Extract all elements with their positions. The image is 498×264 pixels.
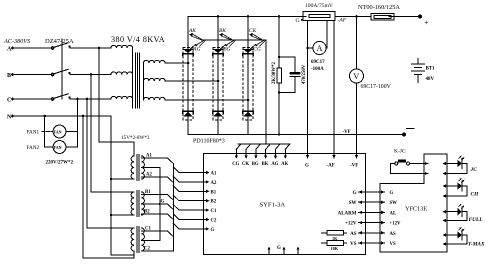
wire VS link xyxy=(350,241,396,247)
resistor R-AS 1K xyxy=(322,231,347,241)
wire K-JC lower xyxy=(390,164,428,176)
wire TA tap A1 xyxy=(142,154,174,164)
flag CG xyxy=(253,40,264,53)
svg-text:AL: AL xyxy=(390,211,397,216)
node RC bottom xyxy=(278,91,280,93)
svg-text:VS: VS xyxy=(390,242,396,247)
wire DC+ rail xyxy=(188,16,306,18)
svg-text:69C17: 69C17 xyxy=(311,60,325,65)
transformer TB secondary xyxy=(142,192,145,215)
svg-text:2K/30W*2: 2K/30W*2 xyxy=(272,62,277,84)
wire RC bottom xyxy=(279,92,295,94)
wire phase C right xyxy=(70,98,111,100)
wire phase A left xyxy=(13,47,52,49)
svg-text:A: A xyxy=(317,44,323,53)
diode A xyxy=(183,111,193,116)
wire module C mid xyxy=(247,55,249,111)
svg-text:CG: CG xyxy=(253,47,261,53)
wire TC centre tap xyxy=(142,240,160,242)
wire module A mid xyxy=(187,55,189,111)
wire T-MAIN secondary common xyxy=(143,63,145,100)
node RC top xyxy=(278,56,280,58)
thyristor B xyxy=(213,44,226,55)
svg-text:PD110F80*3: PD110F80*3 xyxy=(193,139,225,145)
node N drop 2 xyxy=(82,115,85,118)
svg-text:FULL: FULL xyxy=(469,217,484,223)
wire harness bundle left xyxy=(172,164,174,252)
T-MAIN primary winding A xyxy=(111,45,133,48)
wire rail shunt to fuse xyxy=(335,16,370,18)
wire G link xyxy=(353,190,394,196)
capacitor C-snubber 470/250V xyxy=(279,57,307,93)
svg-text:G: G xyxy=(353,191,357,196)
wire pin exit B2 xyxy=(173,195,209,202)
T-MAIN primary winding B xyxy=(111,72,133,75)
wire module C anode xyxy=(247,17,249,50)
controller U1 SYF1-3A box xyxy=(203,153,365,254)
svg-text:BT1: BT1 xyxy=(426,67,436,72)
wire gate pin AG xyxy=(271,144,280,167)
wire RC to bus xyxy=(278,93,280,135)
LED FULL xyxy=(443,204,484,223)
diode B xyxy=(213,111,223,116)
LED T-MAX xyxy=(443,227,485,247)
svg-text:VS: VS xyxy=(350,242,357,247)
svg-text:N: N xyxy=(7,115,12,121)
svg-text:-AF: -AF xyxy=(327,164,335,169)
svg-text:10K: 10K xyxy=(331,246,339,251)
svg-text:48V: 48V xyxy=(426,77,435,82)
pin labels A1-G left xyxy=(211,172,217,233)
breaker pole C xyxy=(51,94,71,100)
svg-text:380 V/4 8KVA: 380 V/4 8KVA xyxy=(111,35,165,44)
T-MAIN core xyxy=(136,53,140,108)
node A drop xyxy=(98,47,101,50)
wire N drop bus xyxy=(110,116,112,255)
transformer TC core xyxy=(137,227,139,253)
wire A drop to T1 primary xyxy=(99,48,134,156)
svg-text:G: G xyxy=(305,164,309,169)
svg-text:-100A: -100A xyxy=(311,67,324,72)
flag AG xyxy=(192,40,205,53)
svg-text:470/250V: 470/250V xyxy=(302,64,307,84)
terminal B xyxy=(7,73,14,79)
svg-text:A1: A1 xyxy=(211,172,217,177)
wire gate pin CG xyxy=(232,144,241,167)
svg-text:G: G xyxy=(161,200,165,205)
node B drop xyxy=(90,73,93,76)
wire TA tap A2 xyxy=(142,173,174,183)
svg-text:220V/27W*2: 220V/27W*2 xyxy=(46,161,74,166)
wire -AF sense xyxy=(333,21,335,159)
module C dashed outline xyxy=(243,48,253,121)
transformer TB primary xyxy=(131,192,134,215)
svg-text:BG: BG xyxy=(223,47,230,53)
svg-text:CK: CK xyxy=(249,28,257,34)
wire T3 bottom stub xyxy=(133,251,135,258)
terminal N xyxy=(7,115,14,121)
svg-text:T-MAX: T-MAX xyxy=(468,241,485,247)
node rail C xyxy=(247,15,250,18)
svg-text:1K: 1K xyxy=(332,236,338,241)
wire C drop to T3 primary xyxy=(87,99,134,228)
wire gate harness bus xyxy=(238,143,290,145)
wire ALARM link xyxy=(338,211,397,217)
svg-text:G: G xyxy=(211,228,215,233)
transformer TA core xyxy=(137,155,139,181)
svg-text:V: V xyxy=(353,72,359,81)
wire N drop 2 to T3 xyxy=(83,116,134,258)
node ammeter left xyxy=(306,47,308,49)
node N-T2 xyxy=(110,214,112,216)
svg-text:G: G xyxy=(390,191,394,196)
svg-text:+12V: +12V xyxy=(390,222,402,227)
wire gate harness drop xyxy=(265,40,267,144)
wire gate pin AK xyxy=(281,144,290,167)
T-MAIN primary winding C xyxy=(111,96,133,99)
wire TC tap C1 xyxy=(142,227,174,237)
wire pin exit G xyxy=(173,223,209,230)
pin G bottom row xyxy=(267,246,270,254)
wire pin exit A1 xyxy=(173,167,209,174)
wire SW link xyxy=(349,201,397,207)
terminal + output xyxy=(418,15,429,27)
wire shunt left sense xyxy=(307,21,309,159)
wire ammeter left stub xyxy=(308,47,314,49)
wire secondary a to module A xyxy=(165,62,188,64)
node rail B xyxy=(217,15,220,18)
svg-text:FAN: FAN xyxy=(54,145,62,150)
node rail RC xyxy=(278,15,281,18)
svg-text:K-JC: K-JC xyxy=(394,149,406,155)
wire rail fuse to + xyxy=(389,16,420,18)
wire pin exit B1 xyxy=(173,186,209,193)
flag BG xyxy=(223,40,235,53)
flag CK xyxy=(249,28,262,40)
wire AS link xyxy=(350,231,396,237)
wire TB centre tap to G xyxy=(142,200,174,210)
wire gate harness horizontal xyxy=(202,39,266,41)
svg-text:AS: AS xyxy=(350,232,357,237)
voltmeter PV xyxy=(350,69,392,90)
svg-text:FAN2: FAN2 xyxy=(27,145,40,151)
wire pin exit C2 xyxy=(173,214,209,221)
svg-text:AK: AK xyxy=(281,162,288,167)
wire ammeter right xyxy=(325,21,328,49)
diode C xyxy=(243,111,253,116)
svg-text:CK: CK xyxy=(242,162,249,167)
svg-text:DZ47-25A: DZ47-25A xyxy=(45,38,74,45)
wire module B anode xyxy=(217,17,219,50)
wire module A anode xyxy=(187,17,189,50)
wire phase B right xyxy=(70,74,111,76)
svg-text:A2: A2 xyxy=(211,181,217,186)
svg-text:15V*2-8W*3: 15V*2-8W*3 xyxy=(121,135,150,141)
wire phase B left xyxy=(13,74,52,76)
wire fan right drop xyxy=(77,99,79,147)
wire phase C left xyxy=(13,98,52,100)
svg-text:CG: CG xyxy=(232,162,239,167)
wire N to T2 primary bottom xyxy=(111,214,134,216)
wire diode B to bus xyxy=(217,116,219,134)
svg-text:AS: AS xyxy=(390,232,396,237)
node fan right on C xyxy=(76,98,79,101)
pin -VF top xyxy=(350,155,358,168)
svg-text:BG: BG xyxy=(252,162,259,167)
pin G top xyxy=(305,155,309,168)
fuse FU NT00-160/125A xyxy=(358,4,400,20)
wire B drop to T2 primary xyxy=(91,75,134,193)
wire pin exit A2 xyxy=(173,176,209,183)
svg-text:-VF: -VF xyxy=(343,130,351,135)
LED CH xyxy=(443,178,480,198)
terminal C xyxy=(7,98,14,104)
wire gate pin BK xyxy=(262,144,271,167)
terminal - output xyxy=(402,129,414,137)
wire diode A to bus xyxy=(187,116,189,134)
T-MAIN secondary winding a xyxy=(144,60,166,63)
wire secondary c to module C xyxy=(165,99,248,101)
svg-text:G: G xyxy=(296,18,300,24)
node G tap xyxy=(159,203,161,205)
flag BK xyxy=(219,28,232,40)
svg-text:C1: C1 xyxy=(211,209,217,214)
resistor R-snubber 2K/30W xyxy=(272,17,281,93)
svg-text:YFC13E: YFC13E xyxy=(405,206,427,213)
svg-text:SYF1-3A: SYF1-3A xyxy=(260,202,286,209)
wire TB tap B1 xyxy=(142,190,174,200)
transformer TC primary xyxy=(131,228,134,251)
node module C input xyxy=(247,99,250,102)
wire gate pin CK xyxy=(242,144,251,167)
module B dashed outline xyxy=(213,48,223,121)
svg-text:B1: B1 xyxy=(211,190,217,195)
wire pin exit C1 xyxy=(173,205,209,212)
display U2 YFC13E box xyxy=(380,154,447,252)
wire fan left drop xyxy=(44,116,46,147)
wire neutral N xyxy=(13,115,111,117)
LED JC xyxy=(443,156,478,176)
svg-text:B2: B2 xyxy=(211,200,217,205)
T-MAIN secondary winding c xyxy=(144,97,166,100)
resistor R-VS 10K xyxy=(322,241,347,251)
svg-text:SW: SW xyxy=(349,201,357,206)
wire TA centre tap xyxy=(142,167,160,169)
svg-text:-VF: -VF xyxy=(350,164,358,169)
svg-text:+: + xyxy=(424,18,429,27)
thyristor C xyxy=(243,44,256,55)
relay contact K-JC xyxy=(394,149,410,166)
svg-text:-AF: -AF xyxy=(338,18,347,24)
T-MAIN secondary winding b xyxy=(144,78,166,81)
wire module B mid xyxy=(217,55,219,111)
wire TB tap B2 xyxy=(142,210,174,220)
thyristor A xyxy=(183,44,196,55)
svg-text:G: G xyxy=(277,246,281,251)
shunt RS 100A/75mV xyxy=(296,3,347,24)
svg-text:B: B xyxy=(7,73,11,79)
breaker pole A xyxy=(51,43,71,50)
svg-text:NT00-160/125A: NT00-160/125A xyxy=(358,4,400,11)
svg-text:AG: AG xyxy=(192,47,200,53)
svg-text:ALARM: ALARM xyxy=(338,211,357,216)
wire T-MAIN primary common xyxy=(132,48,134,108)
svg-text:100A/75mV: 100A/75mV xyxy=(305,3,333,9)
transformer TC secondary xyxy=(142,228,145,251)
transformer TA secondary xyxy=(142,156,145,179)
svg-text:BK: BK xyxy=(219,28,226,34)
wire TC tap C2 xyxy=(142,247,174,252)
svg-text:69C17-100V: 69C17-100V xyxy=(361,84,392,90)
node RC bus xyxy=(278,133,280,135)
wire secondary b to module B xyxy=(165,80,218,82)
node module A input xyxy=(187,62,190,65)
wire diode C to bus xyxy=(247,116,249,134)
svg-text:SW: SW xyxy=(390,201,398,206)
ammeter PA xyxy=(311,41,326,72)
module A dashed outline xyxy=(183,48,193,121)
svg-text:BK: BK xyxy=(262,162,269,167)
svg-text:AC-380VS: AC-380VS xyxy=(3,38,30,45)
svg-text:JC: JC xyxy=(470,167,478,173)
svg-text:C2: C2 xyxy=(211,219,217,224)
svg-text:AK: AK xyxy=(188,28,196,34)
wire G common bus xyxy=(159,168,161,241)
breaker linkage xyxy=(61,39,63,99)
svg-text:A: A xyxy=(7,47,12,53)
terminal A xyxy=(7,47,14,53)
wire DC- bus xyxy=(188,134,404,136)
svg-text:CH: CH xyxy=(471,192,480,198)
wire gate pin BG xyxy=(252,144,261,167)
node voltmeter top xyxy=(355,15,358,18)
transformer TB core xyxy=(137,191,139,217)
wire -VF sense / voltmeter xyxy=(356,17,358,159)
wire K-JC upper xyxy=(410,162,429,165)
fan FAN2 xyxy=(27,141,78,154)
fan FAN1 xyxy=(27,125,78,138)
svg-text:FAN: FAN xyxy=(54,129,62,134)
wire N to T3 primary bottom xyxy=(111,254,134,256)
svg-text:AG: AG xyxy=(271,162,278,167)
node module B input xyxy=(217,80,220,83)
wire N to T1 primary bottom xyxy=(111,178,134,180)
breaker pole B xyxy=(51,69,71,75)
svg-text:C: C xyxy=(7,98,11,104)
flag AK xyxy=(188,28,202,40)
battery BT1 xyxy=(412,59,436,83)
node N-T1 xyxy=(110,178,112,180)
node C drop xyxy=(86,98,89,101)
transformer TA primary xyxy=(131,156,134,179)
wire +12V link xyxy=(345,221,401,227)
node fan left on N xyxy=(43,115,46,118)
wire phase A right xyxy=(70,47,111,49)
svg-text:FAN1: FAN1 xyxy=(27,130,40,136)
svg-text:+12V: +12V xyxy=(345,222,357,227)
pin -AF top xyxy=(327,155,336,168)
